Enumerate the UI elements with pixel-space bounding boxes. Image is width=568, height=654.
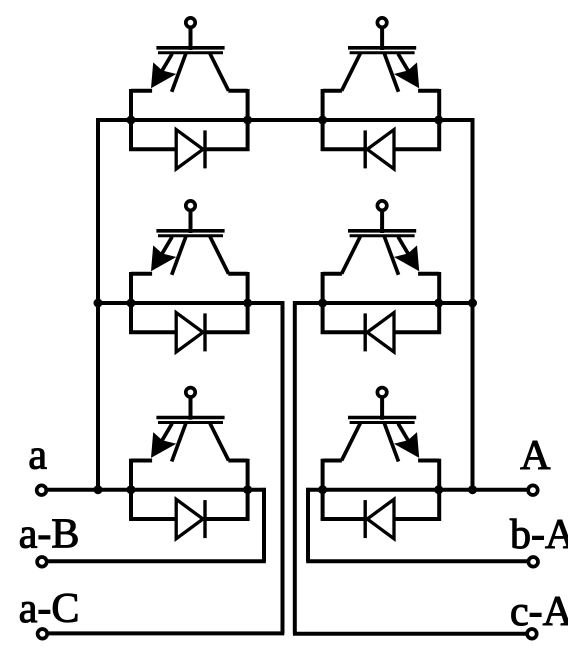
wire: collector stub of Q4 [323, 272, 342, 276]
wire: a-C riser (vertical) [281, 301, 285, 633]
IGBT Q5 gate bar (top) [156, 416, 224, 420]
wire: diode branch right of Q3 [205, 330, 249, 334]
IGBT Q6 gate bar (top) [348, 416, 416, 420]
svg-text:c-A: c-A [510, 589, 568, 635]
wire: diode branch right of Q2 [321, 147, 365, 151]
wire: left column bus (vertical) [96, 118, 100, 490]
node: Q4 collector-side junction [318, 299, 327, 308]
wire: diode branch left of Q6 [394, 517, 441, 521]
wire: left leg of Q6 [437, 459, 441, 521]
IGBT Q1 emitter line with arrow [151, 54, 176, 88]
wire: emitter stub of Q1 [131, 89, 152, 93]
wire: gate lead of Q5 [189, 399, 193, 420]
wire: left leg of Q3 [129, 272, 133, 334]
node: Q1 emitter-side junction [127, 116, 136, 125]
IGBT Q1 collector line [210, 53, 229, 91]
diode Q6D anti-parallel [365, 499, 394, 538]
svg-text:a-C: a-C [19, 586, 80, 632]
wire: b-A riser (vertical) [306, 488, 310, 561]
wire: gate lead of Q1 [189, 29, 193, 50]
IGBT Q5 collector line [210, 423, 229, 461]
IGBT Q3 emitter line with arrow [151, 237, 176, 271]
wire: emitter stub of Q3 [131, 272, 152, 276]
wire: collector stub of Q2 [323, 89, 342, 93]
wire: diode branch right of Q6 [321, 517, 365, 521]
wire: row-1 output link bus [96, 118, 474, 122]
wire: emitter stub of Q4 [418, 272, 439, 276]
wire: emitter stub of Q2 [418, 89, 439, 93]
wire: diode branch right of Q5 [205, 517, 249, 521]
node: Q2 collector-side junction [318, 116, 327, 125]
IGBT Q3 gate bar (top) [156, 229, 224, 233]
diode Q2D anti-parallel [365, 130, 394, 169]
IGBT Q2 emitter inner stroke [384, 53, 398, 91]
IGBT Q1 emitter inner stroke [172, 53, 186, 91]
wire: gate lead of Q6 [380, 399, 384, 420]
IGBT Q2 collector line [342, 53, 361, 91]
wire: diode branch left of Q4 [394, 330, 441, 334]
terminal b-A circle [528, 557, 538, 567]
IGBT Q2 gate bar (bottom) [350, 51, 415, 54]
IGBT Q1 gate bar (bottom) [158, 51, 223, 54]
wire: left leg of Q4 [437, 272, 441, 334]
IGBT Q1 gate terminal circle [186, 18, 195, 27]
wire: diode branch left of Q3 [129, 330, 176, 334]
node: Q6 emitter-side junction [434, 485, 443, 494]
wire: a-B horizontal line [48, 559, 266, 563]
IGBT Q3 emitter inner stroke [172, 236, 186, 274]
IGBT Q3 collector line [210, 236, 229, 274]
wire: gate lead of Q4 [380, 212, 384, 233]
wire: gate lead of Q2 [380, 29, 384, 50]
IGBT Q4 emitter line with arrow [394, 237, 419, 271]
IGBT Q6 collector line [342, 423, 361, 461]
diode Q4D anti-parallel [365, 313, 394, 352]
IGBT Q3 gate terminal circle [186, 201, 195, 210]
terminal c-A circle [527, 629, 537, 639]
wire: row-2 right output segment [293, 301, 473, 305]
wire: emitter stub of Q5 [131, 459, 152, 463]
terminal a-C circle [38, 629, 48, 639]
IGBT Q1 gate bar (top) [156, 46, 224, 50]
node: Q2 emitter-side junction [434, 116, 443, 125]
wire: c-A riser (vertical) [293, 301, 297, 634]
node: right bus / row-2 junction [468, 299, 477, 308]
IGBT Q2 gate bar (top) [348, 46, 416, 50]
wire: diode branch left of Q5 [129, 517, 176, 521]
wire: phase A output line [306, 488, 528, 492]
IGBT Q6 gate bar (bottom) [350, 421, 415, 424]
wire: c-A horizontal line [293, 632, 527, 636]
wire: diode branch right of Q1 [205, 147, 249, 151]
svg-text:A: A [520, 433, 551, 479]
node: right bus / phase-A junction [468, 485, 477, 494]
node: Q5 collector-side junction [243, 485, 252, 494]
wire: a-C horizontal line [48, 631, 284, 635]
wire: a-B riser (vertical) [262, 488, 266, 561]
wire: right leg of Q6 [321, 459, 325, 521]
diode Q3D anti-parallel [176, 313, 205, 352]
node: left bus / phase-a junction [94, 485, 103, 494]
wire: collector stub of Q6 [323, 459, 342, 463]
node: left bus / row-2 junction [94, 299, 103, 308]
svg-text:a: a [28, 433, 47, 479]
node: Q3 emitter-side junction [127, 299, 136, 308]
svg-text:a-B: a-B [19, 512, 80, 558]
IGBT Q2 emitter line with arrow [394, 54, 419, 88]
wire: phase a output line [47, 488, 266, 492]
wire: left leg of Q1 [129, 89, 133, 151]
wire: diode branch left of Q1 [129, 147, 176, 151]
IGBT Q3 gate bar (bottom) [158, 234, 223, 237]
node: Q6 collector-side junction [318, 485, 327, 494]
svg-text:b-A: b-A [510, 512, 568, 558]
terminal a-B circle [37, 557, 47, 567]
IGBT Q6 gate terminal circle [377, 388, 386, 397]
wire: diode branch left of Q2 [394, 147, 441, 151]
node: Q4 emitter-side junction [434, 299, 443, 308]
IGBT Q5 gate terminal circle [186, 388, 195, 397]
wire: gate lead of Q3 [189, 212, 193, 233]
wire: collector stub of Q3 [228, 272, 247, 276]
wire: collector stub of Q1 [228, 89, 247, 93]
node: Q1 collector-side junction [243, 116, 252, 125]
IGBT Q4 gate bar (bottom) [350, 234, 415, 237]
wire: collector stub of Q5 [228, 459, 247, 463]
diode Q5D anti-parallel [176, 499, 205, 538]
node: Q3 collector-side junction [243, 299, 252, 308]
IGBT Q4 emitter inner stroke [384, 236, 398, 274]
IGBT Q4 gate terminal circle [377, 201, 386, 210]
terminal a circle [37, 485, 47, 495]
IGBT Q6 emitter line with arrow [394, 424, 419, 458]
IGBT Q4 collector line [342, 236, 361, 274]
wire: right column bus (vertical) [471, 118, 475, 490]
wire: left leg of Q2 [437, 89, 441, 151]
wire: right leg of Q2 [321, 89, 325, 151]
IGBT Q6 emitter inner stroke [384, 423, 398, 461]
diode Q1D anti-parallel [176, 130, 205, 169]
wire: right leg of Q5 [246, 459, 250, 521]
wire: emitter stub of Q6 [418, 459, 439, 463]
wire: b-A horizontal line [306, 559, 527, 563]
wire: diode branch right of Q4 [321, 330, 365, 334]
IGBT Q4 gate bar (top) [348, 229, 416, 233]
wire: left leg of Q5 [129, 459, 133, 521]
wire: right leg of Q3 [246, 272, 250, 334]
wire: row-2 left output segment [98, 301, 284, 305]
terminal A circle [528, 485, 538, 495]
IGBT Q5 gate bar (bottom) [158, 421, 223, 424]
wire: right leg of Q4 [321, 272, 325, 334]
node: Q5 emitter-side junction [127, 485, 136, 494]
IGBT Q5 emitter line with arrow [151, 424, 176, 458]
IGBT Q2 gate terminal circle [377, 18, 386, 27]
wire: right leg of Q1 [246, 89, 250, 151]
IGBT Q5 emitter inner stroke [172, 423, 186, 461]
